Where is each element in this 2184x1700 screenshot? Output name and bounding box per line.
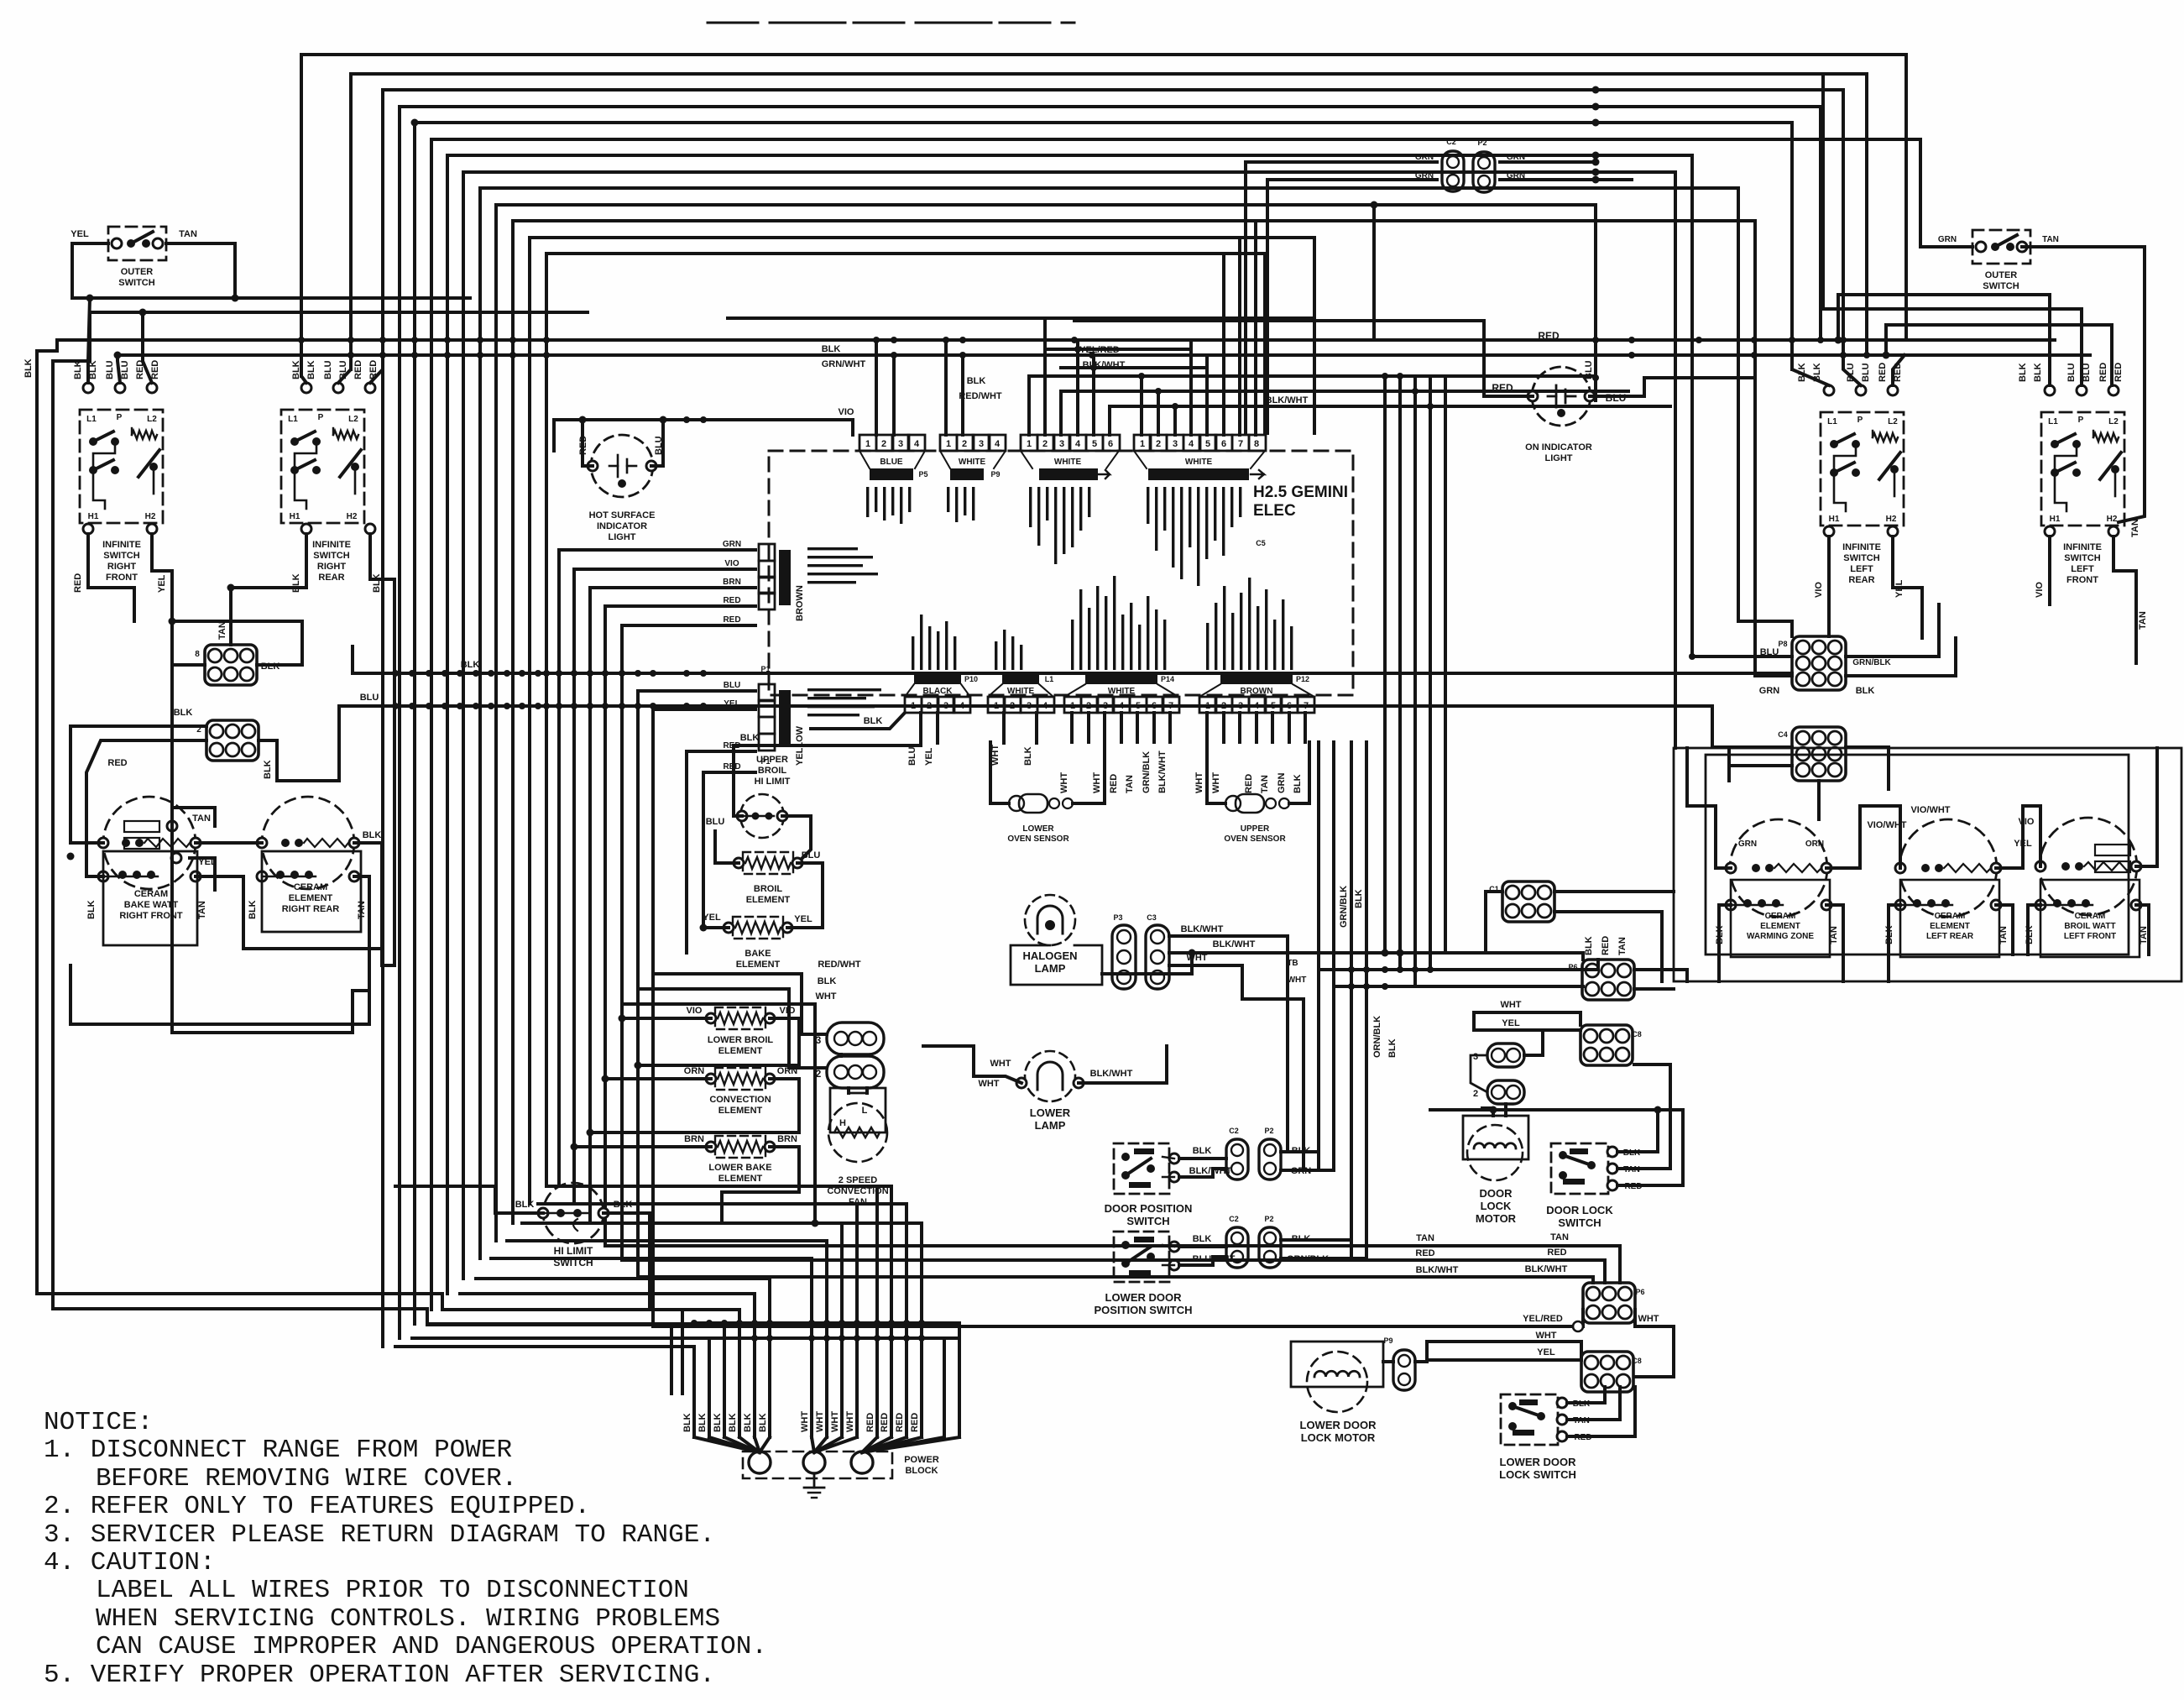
svg-text:YEL: YEL — [1502, 1018, 1520, 1028]
wire BLK into P2 — [71, 724, 206, 728]
svg-text:5: 5 — [1205, 439, 1210, 449]
halogen wires — [1169, 934, 1288, 938]
left bottom rail 2 — [53, 1309, 671, 1394]
svg-text:BLU: BLU — [2066, 363, 2077, 382]
svg-text:BLOCK: BLOCK — [905, 1466, 938, 1476]
svg-text:3: 3 — [898, 439, 903, 449]
connector C4 9-pin right — [1792, 727, 1846, 781]
extra power verticals right — [943, 1394, 946, 1437]
wires below WHITE4 strip — [1002, 713, 1006, 743]
wires looping from P7 — [172, 621, 302, 665]
left block interconnect wires — [71, 841, 103, 845]
svg-text:BLK: BLK — [698, 1413, 708, 1432]
svg-text:RED: RED — [1415, 1248, 1434, 1258]
svg-text:SWITCH: SWITCH — [1983, 281, 2019, 291]
svg-text:BLU: BLU — [323, 360, 333, 379]
svg-text:2: 2 — [1042, 439, 1048, 449]
svg-text:TAN: TAN — [1550, 1232, 1569, 1242]
wires connecting staircase ends to strips — [1263, 254, 1267, 433]
wires at C4 — [1846, 747, 1889, 789]
door position connectors C2 P2 — [1226, 1139, 1248, 1180]
svg-text:H2: H2 — [347, 512, 358, 521]
svg-text:1: 1 — [1205, 701, 1210, 711]
bottom nest wires from P1 bundle — [559, 1186, 891, 1394]
svg-text:P6: P6 — [1568, 963, 1577, 971]
lower broil element wires — [622, 1017, 711, 1020]
svg-text:L2: L2 — [1888, 417, 1898, 426]
svg-text:RED: RED — [895, 1413, 905, 1432]
svg-text:P6: P6 — [1635, 1288, 1644, 1296]
svg-text:BLK: BLK — [174, 708, 193, 718]
lower door position switch — [1114, 1232, 1169, 1282]
svg-text:7: 7 — [1168, 701, 1173, 711]
svg-text:BLK: BLK — [743, 1413, 753, 1432]
wire bundle from board connector P1 upper — [559, 550, 755, 1186]
svg-text:LOWER DOOR: LOWER DOOR — [1300, 1419, 1377, 1431]
door lock motor wires — [1492, 1108, 1495, 1116]
junction dots main buses — [298, 337, 305, 343]
svg-text:ELEMENT: ELEMENT — [746, 895, 791, 905]
junction dots staircase — [1592, 86, 1600, 94]
svg-text:2: 2 — [1221, 701, 1226, 711]
svg-text:GRN/BLK: GRN/BLK — [1852, 658, 1891, 667]
svg-text:HOT SURFACE: HOT SURFACE — [589, 510, 656, 520]
bus YEL/RED to door area — [653, 1325, 1393, 1328]
svg-text:SWITCH: SWITCH — [1558, 1216, 1601, 1229]
svg-text:GRN/BLK: GRN/BLK — [1339, 886, 1349, 928]
svg-text:BLU: BLU — [1861, 363, 1871, 382]
wire left rail x=63 — [51, 361, 55, 1309]
bus RED to door area — [622, 1258, 1393, 1262]
wires from bus into right front switch — [88, 298, 90, 383]
svg-text:BLK: BLK — [306, 360, 316, 379]
svg-text:RED: RED — [73, 573, 83, 593]
svg-text:VIO/WHT: VIO/WHT — [1910, 805, 1950, 815]
svg-text:WHT: WHT — [1211, 772, 1221, 793]
svg-text:CONVECTION: CONVECTION — [709, 1095, 771, 1105]
svg-text:8: 8 — [1254, 439, 1259, 449]
svg-text:SWITCH: SWITCH — [1843, 553, 1879, 563]
svg-text:BLK/WHT: BLK/WHT — [1181, 924, 1224, 934]
wires into left rear switch — [1792, 340, 1829, 385]
ceram bake watt right front element circle — [103, 797, 196, 889]
lower lamp wires — [923, 1046, 1021, 1083]
svg-text:RED: RED — [2113, 363, 2124, 382]
svg-text:WHT: WHT — [1092, 772, 1102, 793]
svg-text:BLK/WHT: BLK/WHT — [1090, 1069, 1133, 1079]
svg-text:RED/WHT: RED/WHT — [818, 960, 861, 970]
lower bake element — [715, 1136, 765, 1158]
svg-text:TAN: TAN — [1416, 1233, 1434, 1243]
wire staircase 8 — [463, 172, 1675, 1279]
svg-text:BLK/WHT: BLK/WHT — [1416, 1265, 1459, 1275]
svg-text:L1: L1 — [86, 415, 97, 424]
svg-text:ELEMENT: ELEMENT — [1930, 922, 1970, 931]
svg-text:TAN: TAN — [1829, 926, 1839, 944]
svg-text:BRN: BRN — [684, 1134, 704, 1144]
connector 2-pin mid right upper — [1487, 1044, 1524, 1067]
svg-text:H1: H1 — [88, 512, 99, 521]
svg-text:5: 5 — [1136, 701, 1141, 711]
svg-text:C5: C5 — [1256, 539, 1266, 547]
svg-text:P: P — [1857, 416, 1863, 425]
connector strip BLACK bottom — [905, 697, 922, 713]
wire staircase 10 — [496, 205, 1596, 1241]
lower oven sensor — [1019, 794, 1048, 813]
bus main y=423 — [118, 353, 2090, 357]
svg-text:WHT: WHT — [845, 1411, 855, 1432]
infinite switch left rear — [1821, 412, 1904, 526]
svg-text:3: 3 — [1103, 701, 1108, 711]
svg-text:1. DISCONNECT RANGE FROM POWER: 1. DISCONNECT RANGE FROM POWER — [44, 1436, 512, 1465]
svg-text:LOWER DOOR: LOWER DOOR — [1105, 1291, 1183, 1304]
connector P6 6-pin door lower — [1583, 1283, 1635, 1323]
svg-text:ELEMENT: ELEMENT — [289, 893, 333, 903]
power block dashed box — [743, 1452, 892, 1478]
svg-text:BLU: BLU — [1584, 360, 1594, 379]
wires into left front switch — [2048, 295, 2051, 385]
lower door lock motor box — [1291, 1342, 1383, 1387]
svg-text:LAMP: LAMP — [1035, 962, 1066, 975]
connector C8 right mid — [1581, 1025, 1633, 1065]
connector strip BROWN bottom 7 — [1199, 697, 1216, 713]
svg-text:BLK: BLK — [1293, 774, 1303, 793]
svg-text:ORN: ORN — [684, 1066, 705, 1076]
svg-text:BLK: BLK — [363, 830, 382, 840]
svg-text:BLK: BLK — [24, 358, 34, 378]
svg-text:ORN: ORN — [1805, 840, 1824, 849]
lower door position connectors C2 P2 — [1226, 1227, 1248, 1268]
svg-text:C2: C2 — [1229, 1127, 1239, 1135]
convection element wires — [605, 1077, 711, 1080]
svg-text:WHT: WHT — [800, 1411, 810, 1432]
svg-text:WHT: WHT — [830, 1411, 840, 1432]
infinite switch right front — [80, 410, 163, 523]
svg-text:P: P — [318, 413, 324, 422]
bus rows door area — [1319, 968, 1598, 971]
svg-text:RED: RED — [2098, 363, 2108, 382]
svg-text:LOCK MOTOR: LOCK MOTOR — [1301, 1431, 1376, 1444]
svg-text:TAN: TAN — [1260, 775, 1270, 793]
connector strip P4 WHITE top — [1134, 435, 1151, 451]
svg-text:BLU: BLU — [724, 681, 741, 690]
wires below right rear switch — [301, 524, 311, 534]
svg-text:YEL: YEL — [71, 229, 89, 239]
svg-text:SWITCH: SWITCH — [103, 551, 139, 561]
right nested box outer — [1674, 748, 2181, 981]
svg-text:P2: P2 — [1264, 1215, 1273, 1223]
upper broil hi limit switch — [740, 794, 784, 838]
svg-text:BLUE: BLUE — [880, 458, 903, 467]
svg-text:1: 1 — [865, 439, 870, 449]
svg-text:P12: P12 — [1296, 675, 1309, 683]
svg-text:YEL/RED: YEL/RED — [1079, 345, 1120, 355]
svg-text:RED: RED — [107, 758, 127, 768]
svg-text:BLK/WHT: BLK/WHT — [1266, 395, 1309, 405]
svg-text:2 SPEED: 2 SPEED — [839, 1175, 878, 1185]
svg-text:HALOGEN: HALOGEN — [1023, 949, 1078, 962]
svg-text:WHEN SERVICING CONTROLS. WIRIN: WHEN SERVICING CONTROLS. WIRING PROBLEMS — [96, 1604, 720, 1634]
svg-text:CERAM: CERAM — [294, 882, 327, 892]
door lock switch box — [1551, 1143, 1608, 1194]
svg-text:BLK: BLK — [263, 760, 273, 779]
svg-text:RED/WHT: RED/WHT — [959, 391, 1002, 401]
ceram bake watt right front lower contacts — [118, 871, 127, 879]
wire staircase 3 — [383, 90, 1843, 1347]
svg-text:BLK: BLK — [822, 344, 841, 354]
svg-text:VIO: VIO — [780, 1006, 796, 1016]
center vertical bundle — [1383, 376, 1387, 953]
connector C2 2-pin top — [1442, 151, 1464, 191]
svg-text:LIGHT: LIGHT — [609, 532, 636, 542]
svg-text:YEL: YEL — [703, 913, 721, 923]
svg-text:WHITE: WHITE — [959, 458, 986, 467]
connector 3-pin fan lower — [827, 1056, 884, 1088]
svg-text:BLK: BLK — [1023, 746, 1033, 766]
wire staircase 9 — [480, 188, 1738, 1258]
svg-text:WHT: WHT — [815, 1411, 825, 1432]
svg-text:6: 6 — [1287, 701, 1292, 711]
wire bundle from board connector P1 lower — [638, 691, 755, 1277]
svg-text:RED: RED — [1492, 382, 1513, 394]
svg-text:BLK: BLK — [864, 716, 883, 726]
svg-text:P2: P2 — [1477, 139, 1486, 147]
bus left y=372 — [90, 311, 588, 314]
svg-text:LAMP: LAMP — [1035, 1119, 1066, 1132]
svg-text:TAN: TAN — [197, 901, 207, 919]
svg-text:C2: C2 — [1446, 138, 1456, 146]
svg-text:BLK: BLK — [728, 1413, 738, 1432]
svg-text:BAKE: BAKE — [745, 949, 771, 959]
svg-text:GRN/BLK: GRN/BLK — [1142, 751, 1152, 793]
svg-text:P8: P8 — [1778, 640, 1787, 648]
bus hot surface y=500 — [554, 418, 853, 421]
svg-text:4: 4 — [914, 439, 920, 449]
svg-text:BLK: BLK — [515, 1200, 535, 1210]
lower bake element wires — [574, 1145, 711, 1148]
halogen lamp box — [1011, 945, 1102, 985]
broil watt lower contacts — [2053, 899, 2061, 908]
svg-text:BLK: BLK — [713, 1413, 723, 1432]
svg-text:RED: RED — [1244, 774, 1254, 793]
svg-text:TAN: TAN — [357, 901, 367, 919]
svg-text:SWITCH: SWITCH — [118, 278, 154, 288]
bake element wires — [703, 926, 729, 929]
wires at 2-pin connectors — [1524, 1030, 1543, 1055]
svg-text:LEFT: LEFT — [1850, 564, 1873, 574]
outer switch left box — [108, 227, 166, 260]
svg-text:L1: L1 — [1045, 675, 1054, 683]
svg-text:2. REFER ONLY TO FEATURES EQUI: 2. REFER ONLY TO FEATURES EQUIPPED. — [44, 1492, 590, 1521]
svg-text:6: 6 — [1152, 701, 1157, 711]
svg-text:ORN/BLK: ORN/BLK — [1372, 1016, 1382, 1058]
connector strip WHITE bottom 7 — [1064, 697, 1081, 713]
svg-text:RED: RED — [723, 596, 740, 605]
wire from hi limit right — [603, 1213, 650, 1310]
svg-text:TAN: TAN — [1999, 926, 2009, 944]
svg-text:3: 3 — [1027, 701, 1032, 711]
junction dots bottom buses — [691, 1320, 698, 1326]
svg-text:3: 3 — [1059, 439, 1064, 449]
svg-text:BLK: BLK — [1193, 1234, 1212, 1244]
svg-text:HI LIMIT: HI LIMIT — [554, 1245, 593, 1257]
svg-text:BLK: BLK — [1354, 889, 1364, 908]
svg-text:GRN: GRN — [1938, 235, 1957, 244]
svg-text:INFINITE: INFINITE — [312, 540, 351, 550]
svg-text:1: 1 — [994, 701, 999, 711]
lower lamp — [1025, 1051, 1075, 1101]
svg-text:RIGHT REAR: RIGHT REAR — [282, 904, 340, 914]
svg-text:BEFORE REMOVING WIRE COVER.: BEFORE REMOVING WIRE COVER. — [96, 1464, 517, 1493]
door lock switch wires — [1617, 1110, 1658, 1152]
svg-text:4: 4 — [1042, 701, 1048, 711]
svg-text:ELEMENT: ELEMENT — [718, 1046, 763, 1056]
svg-text:RED: RED — [910, 1413, 920, 1432]
bus main y=405 — [57, 338, 2055, 342]
bake element — [733, 917, 783, 939]
svg-text:BROWN: BROWN — [795, 585, 805, 621]
svg-text:TAN: TAN — [217, 621, 227, 640]
connector P2 2-pin top — [1473, 152, 1495, 192]
svg-text:DOOR LOCK: DOOR LOCK — [1546, 1204, 1613, 1216]
svg-text:H1: H1 — [2050, 515, 2061, 524]
bottom nest wires into power verticals — [395, 1347, 694, 1394]
svg-text:5. VERIFY PROPER OPERATION AFT: 5. VERIFY PROPER OPERATION AFTER SERVICI… — [44, 1661, 715, 1690]
svg-text:ON INDICATOR: ON INDICATOR — [1525, 442, 1592, 452]
lower door lock switch box — [1501, 1394, 1558, 1445]
right elements interconnect wires — [1826, 806, 1900, 868]
svg-text:CAN CAUSE IMPROPER AND DANGERO: CAN CAUSE IMPROPER AND DANGEROUS OPERATI… — [96, 1632, 767, 1661]
door position wires — [1179, 1157, 1226, 1160]
wires below WHITE7 strip — [1070, 713, 1074, 742]
svg-text:LOWER: LOWER — [1022, 824, 1054, 834]
svg-text:ELEMENT: ELEMENT — [1760, 922, 1800, 931]
svg-text:VIO: VIO — [2019, 817, 2035, 827]
wire staircase 12 — [530, 238, 1314, 1204]
svg-text:BLK: BLK — [86, 900, 97, 919]
svg-text:BLK: BLK — [758, 1413, 768, 1432]
svg-text:1: 1 — [1070, 701, 1075, 711]
wire left rail joins — [37, 340, 57, 351]
svg-text:BLK: BLK — [461, 660, 480, 670]
svg-text:RIGHT: RIGHT — [317, 562, 347, 572]
svg-text:TAN: TAN — [2138, 611, 2148, 630]
svg-text:BAKE WATT: BAKE WATT — [124, 900, 179, 910]
broil watt box — [2040, 880, 2140, 957]
svg-text:H: H — [839, 1118, 846, 1128]
svg-text:6: 6 — [1108, 439, 1113, 449]
svg-text:5: 5 — [1092, 439, 1097, 449]
svg-text:LOWER BROIL: LOWER BROIL — [708, 1035, 773, 1045]
svg-text:7: 7 — [1304, 701, 1309, 711]
svg-text:L1: L1 — [288, 415, 298, 424]
svg-text:H2: H2 — [1886, 515, 1897, 524]
convection element — [715, 1068, 765, 1090]
control board dashed box — [769, 451, 1353, 695]
wires from staircase into right rear switch — [301, 340, 306, 383]
bus BLK mid-left y=802 — [353, 672, 1792, 675]
broil element — [743, 852, 793, 874]
svg-text:5: 5 — [1271, 701, 1276, 711]
svg-text:4: 4 — [959, 701, 965, 711]
wires at P6 mid — [1634, 970, 1687, 981]
connector C8 6-pin door lower — [1581, 1352, 1633, 1392]
svg-text:TAN: TAN — [1125, 775, 1135, 793]
mid bus stubs — [351, 646, 354, 673]
svg-text:4: 4 — [1189, 439, 1194, 449]
svg-text:C8: C8 — [1632, 1030, 1642, 1038]
bus door feed verticals — [1392, 1244, 1395, 1248]
svg-text:YEL: YEL — [157, 574, 167, 593]
svg-text:2: 2 — [962, 439, 967, 449]
svg-text:BRN: BRN — [777, 1134, 797, 1144]
svg-text:H1: H1 — [1829, 515, 1840, 524]
svg-text:INFINITE: INFINITE — [102, 540, 141, 550]
svg-text:L2: L2 — [348, 415, 358, 424]
svg-text:SWITCH: SWITCH — [2064, 553, 2100, 563]
wires from P2 to vertical rail — [1500, 160, 1596, 164]
wires at hot surface indicator — [583, 420, 593, 466]
svg-text:REAR: REAR — [1848, 575, 1874, 585]
svg-text:REAR: REAR — [318, 573, 344, 583]
svg-text:LIGHT: LIGHT — [1545, 453, 1573, 463]
svg-text:VIO: VIO — [839, 407, 854, 417]
svg-text:RED: RED — [1547, 1248, 1566, 1258]
svg-text:GRN/WHT: GRN/WHT — [822, 359, 866, 369]
svg-text:4: 4 — [1254, 701, 1260, 711]
ceram element right rear box — [262, 851, 361, 932]
svg-text:LOWER: LOWER — [1030, 1106, 1071, 1119]
svg-text:MOTOR: MOTOR — [1476, 1212, 1517, 1225]
svg-text:RED: RED — [880, 1413, 890, 1432]
svg-text:P: P — [2078, 416, 2084, 425]
svg-text:1: 1 — [911, 701, 916, 711]
wire BLK/WHT feed above board — [1061, 366, 1207, 369]
wire YEL/RED feed above board — [1045, 348, 1191, 351]
svg-text:BLU: BLU — [706, 817, 725, 827]
svg-text:C4: C4 — [1778, 730, 1788, 739]
svg-text:TAN: TAN — [179, 229, 197, 239]
lower door lock motor connector P9 — [1393, 1350, 1415, 1390]
upper oven sensor — [1236, 794, 1264, 813]
svg-text:BLU: BLU — [802, 850, 821, 860]
svg-text:TAN: TAN — [192, 813, 211, 824]
power block verticals with labels — [692, 1389, 696, 1437]
connector strip P9 WHITE top — [940, 435, 957, 451]
ceram element right rear circle — [262, 797, 354, 889]
svg-text:BLK: BLK — [372, 573, 382, 593]
svg-text:ELEMENT: ELEMENT — [718, 1106, 763, 1116]
bus left y=355 — [72, 296, 470, 300]
connector strip P5 BLUE top — [859, 435, 876, 451]
svg-text:BLK: BLK — [682, 1413, 692, 1432]
svg-text:4: 4 — [1119, 701, 1125, 711]
svg-text:BLK: BLK — [967, 376, 986, 386]
svg-text:YEL: YEL — [1537, 1347, 1555, 1357]
upper oven sensor wires — [1289, 742, 1309, 803]
svg-text:SWITCH: SWITCH — [1126, 1215, 1169, 1227]
svg-text:WHT: WHT — [978, 1079, 999, 1089]
vertical rail junctions x=1901 — [1592, 159, 1600, 166]
right bus pairs above switches — [1838, 293, 2050, 296]
svg-text:LEFT FRONT: LEFT FRONT — [2064, 932, 2116, 941]
bus feeding door lock area — [1430, 1108, 1683, 1112]
svg-text:UPPER: UPPER — [1241, 824, 1270, 834]
svg-text:3: 3 — [1173, 439, 1178, 449]
svg-text:BLU: BLU — [907, 746, 917, 766]
connector P2 6-pin lower-left — [206, 720, 259, 761]
svg-text:BLK: BLK — [1193, 1146, 1212, 1156]
